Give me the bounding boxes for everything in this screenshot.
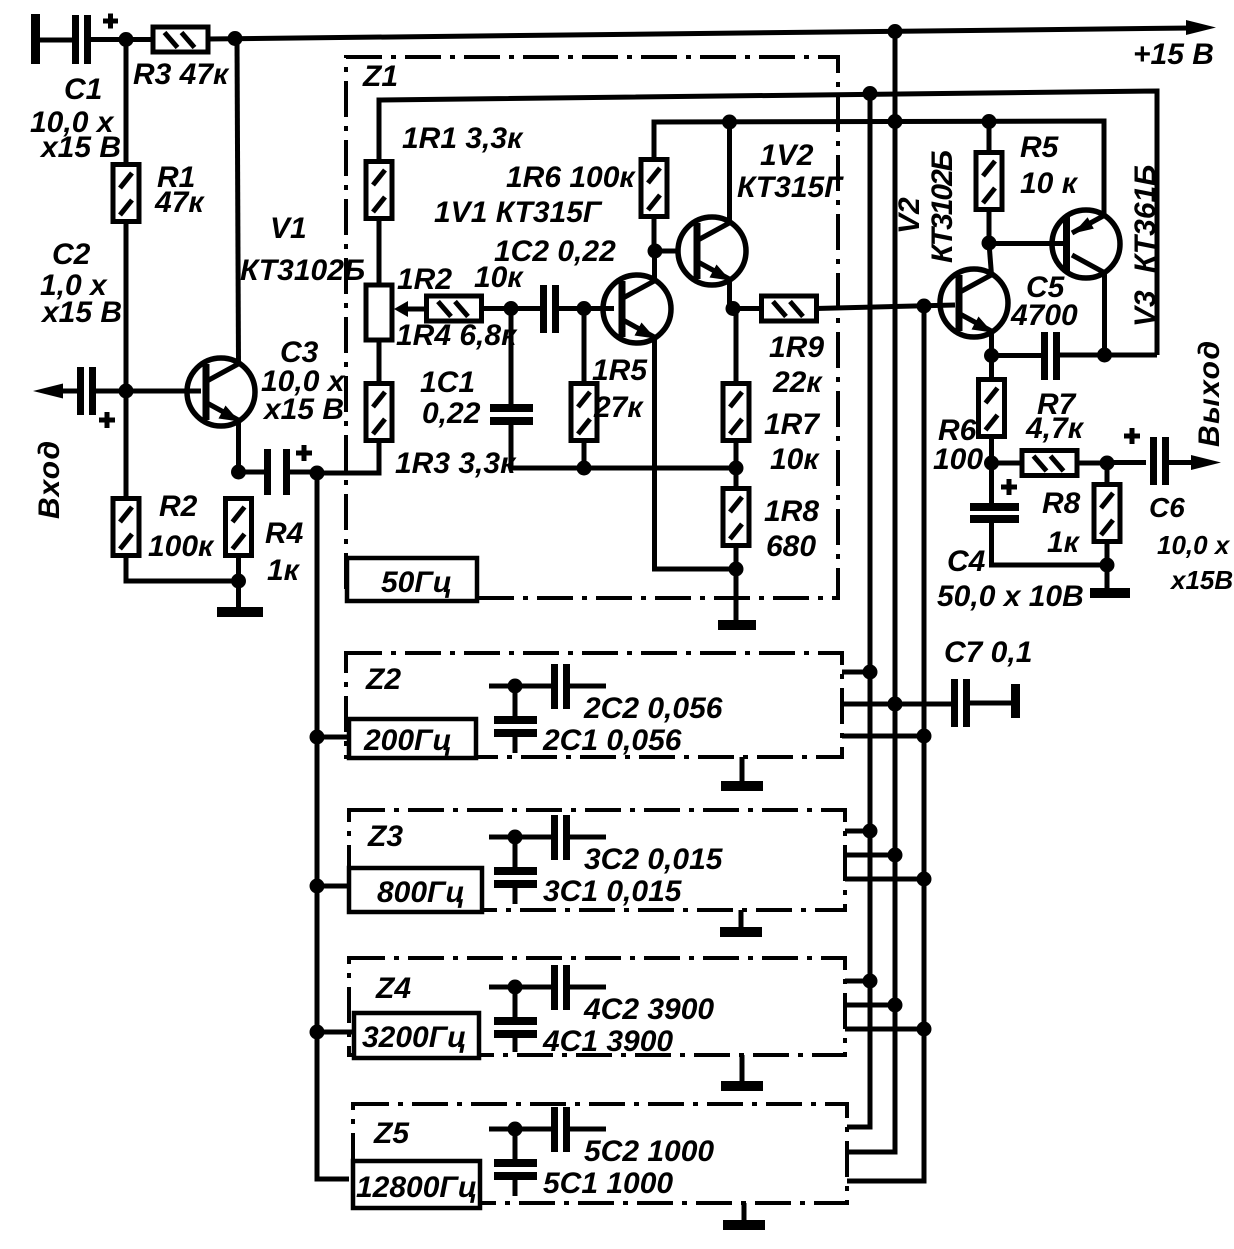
wire 1C1 stem bbox=[509, 308, 514, 406]
bus C (to V2 base) bbox=[848, 306, 924, 1181]
node D (C2/R1/R2/base) bbox=[119, 384, 134, 399]
svg-text:V2: V2 bbox=[893, 197, 926, 234]
label +15 B bbox=[1133, 38, 1214, 71]
svg-text:1V1 КТ315Г: 1V1 КТ315Г bbox=[434, 196, 603, 229]
svg-text:х15 В: х15 В bbox=[39, 131, 121, 164]
node I (1R4/1C1/1C2) bbox=[504, 301, 519, 316]
label V1 КТ3102Б bbox=[240, 212, 365, 287]
resistor 1R5 bbox=[571, 384, 597, 441]
label R1 47к bbox=[154, 161, 205, 219]
node 3C1/3C2 bbox=[489, 830, 551, 845]
label V3 КТ361Б (rotated) bbox=[1129, 165, 1162, 327]
wire 1V1 collector up bbox=[652, 250, 657, 281]
node W (R6/R7/C4) bbox=[984, 456, 999, 471]
node K (1R5 bottom) bbox=[577, 461, 592, 476]
capacitor 3C2 bbox=[551, 815, 606, 860]
resistor R5 bbox=[976, 153, 1002, 210]
label Z5 bbox=[373, 1117, 410, 1150]
wire 1R5 top bbox=[582, 308, 587, 385]
ground GND Z2 bbox=[721, 757, 763, 791]
capacitor 1C2 bbox=[540, 285, 559, 333]
wire 1V2 emitter down bbox=[727, 279, 732, 309]
label R2 100к bbox=[148, 490, 215, 563]
capacitor C3 bbox=[264, 445, 312, 495]
svg-text:1R5: 1R5 bbox=[592, 354, 648, 387]
Z5 stub 3 bbox=[847, 1179, 924, 1184]
label C7 0,1 bbox=[944, 636, 1032, 669]
wire C1 to node A bbox=[91, 37, 152, 42]
wire C7 to terminal bbox=[970, 701, 1013, 706]
Z4 stub 1 to bus A bbox=[845, 974, 878, 989]
node S (1R8/1V1 emitter/gnd) bbox=[729, 562, 744, 577]
wire node P to 1R9 bbox=[733, 306, 762, 311]
label 1C1 0,22 bbox=[420, 366, 481, 430]
svg-text:680: 680 bbox=[766, 530, 816, 563]
transistor V1 bbox=[187, 358, 255, 426]
label 1R8 680 bbox=[764, 495, 819, 563]
transistor 1V1 bbox=[603, 275, 671, 343]
svg-text:Z5: Z5 bbox=[373, 1117, 410, 1150]
wire bus to Z2 bbox=[317, 735, 350, 740]
label R8 1к bbox=[1042, 487, 1081, 559]
label 1C2 0,22 bbox=[494, 235, 616, 268]
label 1R9 22к bbox=[769, 331, 824, 399]
node Q (V2 base / bus C) bbox=[917, 299, 932, 314]
svg-text:х15 В: х15 В bbox=[40, 296, 122, 329]
node X (R7/R8/C6) bbox=[1100, 456, 1115, 471]
capacitor C5 bbox=[1041, 332, 1060, 380]
resistor R6 bbox=[979, 380, 1005, 437]
label 1R3 3,3к bbox=[395, 447, 517, 480]
wire node X to C6 bbox=[1107, 460, 1146, 465]
wire bus to Z3 bbox=[317, 884, 350, 889]
label Z3 bbox=[367, 820, 403, 853]
wire R7 to node X bbox=[1077, 461, 1107, 466]
svg-text:1R8: 1R8 bbox=[764, 495, 819, 528]
block Z1 border bbox=[346, 57, 838, 598]
svg-text:4С1 3900: 4С1 3900 bbox=[542, 1025, 673, 1058]
node bus/Z2 bbox=[310, 730, 325, 745]
svg-text:Z4: Z4 bbox=[375, 972, 411, 1005]
svg-text:3С2 0,015: 3С2 0,015 bbox=[584, 843, 724, 876]
label 2C2 0,056 bbox=[583, 692, 723, 725]
label R5 10к bbox=[1020, 131, 1079, 200]
capacitor 2C1 bbox=[494, 686, 537, 753]
svg-text:R4: R4 bbox=[265, 517, 304, 550]
input arrow bbox=[33, 384, 77, 399]
capacitor 1C1 bbox=[490, 404, 533, 425]
wire T1 to C1 bbox=[40, 38, 72, 43]
resistor 1R6 bbox=[641, 160, 667, 217]
Z3 stub 3 to bus C bbox=[845, 872, 932, 887]
Z2 stub 2 to bus B bbox=[888, 697, 903, 712]
node R (1R7/1R8/bottom rail) bbox=[729, 461, 744, 476]
wire 1R2 to 1R3 bbox=[377, 340, 382, 385]
node P (1V2 emitter/1R9/1R7) bbox=[726, 301, 741, 316]
wiper arrow 1R2 bbox=[394, 301, 428, 317]
svg-text:С4: С4 bbox=[947, 545, 986, 578]
resistor 1R8 bbox=[723, 489, 749, 546]
svg-text:1к: 1к bbox=[267, 554, 301, 587]
svg-text:С2: С2 bbox=[52, 238, 91, 271]
wire 1R8 bottom bbox=[734, 545, 739, 569]
svg-text:100: 100 bbox=[933, 443, 983, 476]
node J (1C2/1R5/1V1 base) bbox=[577, 301, 592, 316]
svg-text:С7 0,1: С7 0,1 bbox=[944, 636, 1032, 669]
block Z3 border bbox=[349, 810, 845, 910]
node O (1V2 coll / +rail) bbox=[722, 115, 737, 130]
node A (C1/R3/R1) bbox=[119, 32, 134, 47]
label R6 100 bbox=[933, 414, 983, 476]
bus A (feedback) bbox=[848, 93, 870, 1127]
svg-text:КТ361Б: КТ361Б bbox=[1129, 165, 1162, 273]
+15V rail wire bbox=[208, 28, 1192, 39]
bus B (+15V) bbox=[848, 32, 895, 1152]
wire V3 emitter up to +rail bbox=[1102, 121, 1107, 216]
label C5 4700 bbox=[1010, 271, 1078, 332]
resistor R1 bbox=[113, 165, 139, 222]
ground GND Z5 bbox=[723, 1203, 765, 1230]
label C1 value bbox=[30, 73, 121, 164]
wire 1R7 bottom bbox=[734, 440, 739, 468]
svg-text:1V2: 1V2 bbox=[760, 139, 814, 172]
capacitor C1 bbox=[72, 14, 118, 65]
wire C2 to V1 base bbox=[96, 389, 201, 394]
svg-text:х15В: х15В bbox=[1169, 565, 1233, 595]
transistor V2 bbox=[940, 269, 1008, 337]
ground GND2 (R8) bbox=[1090, 565, 1130, 598]
wire 1R4 to 1C2 bbox=[481, 306, 540, 311]
wire 1V1 emitter down to 1R8 bottom bbox=[655, 337, 737, 569]
svg-text:12800Гц: 12800Гц bbox=[356, 1171, 477, 1204]
resistor 1R9 bbox=[762, 296, 817, 321]
wire 1R9 to V2 base bbox=[816, 305, 955, 309]
capacitor 5C2 bbox=[551, 1107, 606, 1152]
svg-text:1R9: 1R9 bbox=[769, 331, 824, 364]
node 5C1/5C2 bbox=[489, 1122, 551, 1137]
wire 1R5 bottom bbox=[582, 440, 587, 468]
label R3 47к bbox=[133, 58, 230, 91]
svg-text:С1: С1 bbox=[64, 73, 102, 106]
label 1V1 КТ315Г bbox=[434, 196, 603, 229]
node bus/Z4 bbox=[310, 1025, 325, 1040]
svg-text:Z3: Z3 bbox=[367, 820, 403, 853]
wire C4 top bbox=[989, 463, 994, 504]
wire node W to R7 bbox=[992, 461, 1023, 466]
wire node N to 1V2 base bbox=[655, 249, 680, 254]
label 1V2 КТ315Г bbox=[737, 139, 844, 204]
svg-text:4С2 3900: 4С2 3900 bbox=[583, 993, 714, 1026]
label box 50Гц bbox=[347, 558, 477, 601]
svg-text:V3: V3 bbox=[1129, 290, 1162, 327]
svg-text:2С1 0,056: 2С1 0,056 bbox=[542, 724, 682, 757]
capacitor 5C1 bbox=[494, 1129, 537, 1196]
label 1R4 6,8к bbox=[396, 319, 518, 352]
svg-text:Выход: Выход bbox=[1193, 341, 1226, 447]
wire R5 bottom to node T bbox=[987, 208, 992, 243]
svg-text:R2: R2 bbox=[159, 490, 198, 523]
svg-text:+15 В: +15 В bbox=[1133, 38, 1214, 71]
wire V2 emitter to C5 bbox=[992, 353, 1042, 358]
potentiometer 1R2 bbox=[366, 285, 392, 340]
wire R8 top bbox=[1105, 463, 1110, 486]
label 1R7 10к bbox=[764, 408, 820, 476]
transistor 1V2 bbox=[678, 217, 746, 285]
svg-text:3С1 0,015: 3С1 0,015 bbox=[543, 875, 683, 908]
label Вход bbox=[33, 441, 66, 519]
label 1R5 27к bbox=[592, 354, 648, 424]
capacitor C7 bbox=[951, 679, 970, 727]
label 1R6 100к bbox=[506, 161, 636, 194]
node G (R2/R4 gnd) bbox=[231, 574, 246, 589]
svg-text:1R1 3,3к: 1R1 3,3к bbox=[402, 122, 524, 155]
svg-text:1к: 1к bbox=[1047, 526, 1081, 559]
Z3 stub 1 to bus A bbox=[845, 824, 878, 839]
node M (+rail / R5 top) bbox=[982, 114, 997, 129]
node C (rail / +15 bus) bbox=[888, 24, 903, 39]
resistor R4 bbox=[226, 499, 252, 556]
svg-text:3200Гц: 3200Гц bbox=[362, 1021, 467, 1054]
capacitor C6 bbox=[1124, 428, 1169, 485]
wire V1 collector up to rail bbox=[237, 39, 239, 364]
Z4 stub 3 to bus C bbox=[845, 1022, 932, 1037]
wire C6 to output arrow bbox=[1169, 460, 1200, 465]
ground GND Z3 bbox=[720, 910, 762, 937]
wire node T to V3 base bbox=[989, 241, 1064, 246]
svg-text:22к: 22к bbox=[772, 366, 823, 399]
Z2 stub 3 to bus C bbox=[842, 729, 932, 744]
svg-text:1R3 3,3к: 1R3 3,3к bbox=[395, 447, 517, 480]
wire C7 row bbox=[842, 702, 951, 707]
wire 1R3 to node F bbox=[320, 440, 379, 473]
ground GND1 bbox=[217, 581, 263, 617]
label C6 value bbox=[1149, 492, 1233, 595]
svg-text:4700: 4700 bbox=[1010, 299, 1078, 332]
label 3C2 0,015 bbox=[584, 843, 724, 876]
node 4C1/4C2 bbox=[489, 980, 551, 995]
svg-text:R3 47к: R3 47к bbox=[133, 58, 230, 91]
block Z2 border bbox=[346, 653, 842, 757]
label R7 4,7к bbox=[1025, 388, 1085, 445]
svg-text:1С2 0,22: 1С2 0,22 bbox=[494, 235, 616, 268]
svg-text:5С1 1000: 5С1 1000 bbox=[543, 1167, 673, 1200]
label box 12800Гц bbox=[353, 1161, 480, 1208]
resistor 1R1 bbox=[366, 162, 392, 219]
arrow output bbox=[1191, 455, 1221, 470]
svg-text:КТ3102Б: КТ3102Б bbox=[926, 150, 959, 263]
node bus/Z3 bbox=[310, 879, 325, 894]
svg-text:800Гц: 800Гц bbox=[377, 876, 465, 909]
label Z2 bbox=[365, 663, 401, 696]
svg-text:50Гц: 50Гц bbox=[381, 566, 452, 599]
node B (rail / V1 collector) bbox=[228, 31, 243, 46]
left input bus bbox=[317, 473, 349, 1179]
node F (C3/Z1 input/left bus) bbox=[310, 466, 325, 481]
svg-text:С6: С6 bbox=[1149, 492, 1185, 523]
svg-text:Z2: Z2 bbox=[365, 663, 401, 696]
svg-text:50,0 х 10В: 50,0 х 10В bbox=[937, 580, 1084, 613]
label Выход (rotated) bbox=[1193, 341, 1226, 447]
svg-text:х15 В: х15 В bbox=[262, 393, 344, 426]
label C3 value bbox=[261, 336, 346, 426]
svg-text:10 к: 10 к bbox=[1020, 167, 1079, 200]
node E (emitter/R4/C3) bbox=[231, 465, 246, 480]
resistor R2 bbox=[113, 499, 139, 556]
node 2C1/2C2 bbox=[489, 679, 551, 694]
svg-text:КТ315Г: КТ315Г bbox=[737, 171, 844, 204]
label C2 value bbox=[40, 238, 122, 329]
terminal T1 (common, top left) bbox=[31, 14, 40, 64]
svg-text:4,7к: 4,7к bbox=[1025, 412, 1085, 445]
ground GND Z1 bbox=[718, 569, 756, 630]
label box 3200Гц bbox=[354, 1013, 479, 1058]
svg-text:Z1: Z1 bbox=[362, 60, 398, 93]
svg-text:1R4 6,8к: 1R4 6,8к bbox=[396, 319, 518, 352]
Z4 stub 2 to bus B bbox=[845, 998, 903, 1013]
transistor V3 (PNP) bbox=[1052, 210, 1120, 278]
svg-text:1R6 100к: 1R6 100к bbox=[506, 161, 636, 194]
node U (V3 coll / C5 / feedback) bbox=[1097, 348, 1112, 363]
wire R1 to node D bbox=[124, 221, 129, 391]
wire C4 bottom to node Y bbox=[992, 523, 1108, 565]
Z3 stub 2 to bus B bbox=[845, 848, 903, 863]
label Z4 bbox=[375, 972, 411, 1005]
label 5C2 1000 bbox=[584, 1135, 714, 1168]
node H (feedback rail / bus A) bbox=[863, 86, 878, 101]
wire V2 emitter down bbox=[989, 331, 994, 356]
terminal T2 (C7) bbox=[1011, 684, 1020, 718]
capacitor C2 bbox=[77, 367, 115, 428]
wire 1R1 to 1R2 bbox=[377, 218, 382, 287]
wire R6 top bbox=[989, 355, 994, 381]
resistor R7 bbox=[1022, 451, 1077, 476]
wire R2 bottom to gnd node bbox=[126, 554, 238, 581]
wire R6 bottom bbox=[989, 436, 994, 463]
svg-text:R8: R8 bbox=[1042, 487, 1081, 520]
resistor R3 bbox=[153, 27, 208, 52]
label R4 1к bbox=[265, 517, 304, 587]
wire C3 to node F bbox=[290, 470, 317, 475]
label 4C1 3900 bbox=[542, 1025, 673, 1058]
Z5 stub 2 bbox=[847, 1150, 895, 1155]
wire bus to Z4 bbox=[317, 1030, 355, 1035]
svg-text:0,22: 0,22 bbox=[422, 397, 481, 430]
svg-text:100к: 100к bbox=[148, 530, 215, 563]
capacitor 4C2 bbox=[551, 965, 606, 1010]
wire R5 top bbox=[987, 122, 992, 154]
label Z1 bbox=[362, 60, 398, 93]
node T (R5/V2 coll/V3 base) bbox=[982, 236, 997, 251]
wire V1 emitter down bbox=[236, 420, 241, 472]
label 1R1 3,3к bbox=[402, 122, 524, 155]
svg-text:10к: 10к bbox=[770, 443, 820, 476]
label box 200Гц bbox=[349, 719, 476, 758]
svg-text:R5: R5 bbox=[1020, 131, 1060, 164]
block Z4 border bbox=[349, 958, 845, 1055]
node C7/bus B bbox=[888, 697, 903, 712]
resistor 1R4 bbox=[427, 296, 482, 321]
label V2 КТ3102Б (rotated) bbox=[893, 150, 959, 263]
node L (+rail / bus B) bbox=[888, 114, 903, 129]
wire 1C1 to bottom rail bbox=[511, 425, 736, 468]
label 1R2 10к bbox=[397, 261, 524, 296]
node V (V2 emitter / C5 / R6) bbox=[984, 348, 999, 363]
svg-text:200Гц: 200Гц bbox=[363, 724, 452, 757]
svg-text:5С2 1000: 5С2 1000 bbox=[584, 1135, 714, 1168]
wire 1R6 bottom bbox=[652, 216, 657, 251]
wire 1R7 top bbox=[734, 309, 739, 385]
label C4 value bbox=[937, 545, 1084, 613]
svg-text:2С2 0,056: 2С2 0,056 bbox=[583, 692, 723, 725]
Z2 stub 1 to bus A bbox=[842, 665, 878, 680]
wire 1R8 top bbox=[734, 468, 739, 490]
resistor R8 bbox=[1094, 485, 1120, 542]
svg-text:27к: 27к bbox=[593, 391, 644, 424]
svg-text:V1: V1 bbox=[270, 212, 307, 245]
svg-text:1R7: 1R7 bbox=[764, 408, 820, 441]
svg-text:Вход: Вход bbox=[33, 441, 66, 519]
wire node A down to R1 bbox=[124, 40, 129, 167]
capacitor 4C1 bbox=[494, 987, 537, 1052]
capacitor C4 bbox=[970, 479, 1019, 523]
wire Z1 +rail bbox=[654, 121, 1104, 213]
wire V2 collector up bbox=[989, 243, 992, 275]
ground GND Z4 bbox=[721, 1055, 763, 1091]
Z5 stub 1 bbox=[847, 1125, 870, 1130]
wire R8 bottom bbox=[1105, 541, 1110, 565]
wire V3 collector down bbox=[1102, 272, 1107, 355]
label 2C1 0,056 bbox=[542, 724, 682, 757]
arrow +15V bbox=[1186, 20, 1216, 35]
svg-text:47к: 47к bbox=[154, 186, 205, 219]
node Y (R8/C4 gnd) bbox=[1100, 558, 1115, 573]
wire node E to C3 bbox=[238, 470, 264, 475]
label 4C2 3900 bbox=[583, 993, 714, 1026]
capacitor 2C2 bbox=[551, 664, 606, 709]
wire R1 node D down R2 bbox=[124, 391, 129, 500]
svg-text:1С1: 1С1 bbox=[420, 366, 475, 399]
label box 800Гц bbox=[349, 868, 482, 912]
capacitor 3C1 bbox=[494, 837, 537, 904]
label 5C1 1000 bbox=[543, 1167, 673, 1200]
node N (1R6/1V1 coll/1V2 base) bbox=[648, 244, 663, 259]
wire 1C2 to 1V1 base bbox=[559, 306, 614, 311]
wire C5 to node U bbox=[1060, 353, 1157, 358]
svg-text:10,0 х: 10,0 х bbox=[1157, 530, 1231, 560]
resistor 1R3 bbox=[366, 384, 392, 441]
block Z5 border bbox=[353, 1104, 847, 1203]
wire R4 to gnd node bbox=[236, 554, 241, 584]
resistor 1R7 bbox=[723, 384, 749, 441]
label 3C1 0,015 bbox=[543, 875, 683, 908]
svg-text:1R2: 1R2 bbox=[397, 263, 452, 296]
wire 1V2 collector up to +rail bbox=[727, 122, 732, 223]
wire Z1 top rail (feedback) bbox=[379, 91, 1157, 355]
